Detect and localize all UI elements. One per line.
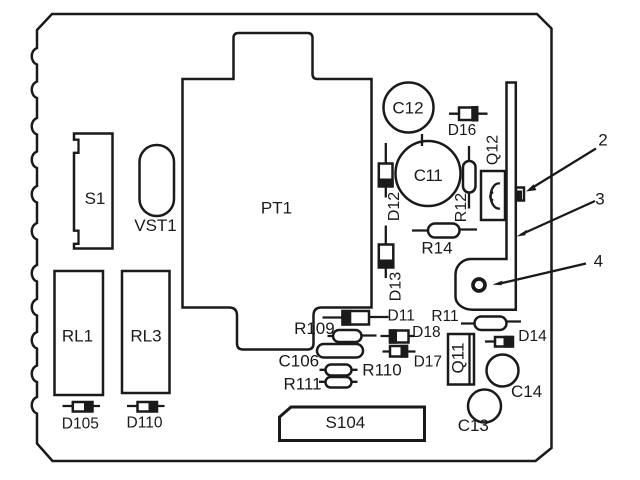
svg-text:D13: D13 xyxy=(388,272,405,301)
resistor R14 xyxy=(412,224,477,258)
svg-text:2: 2 xyxy=(598,131,607,150)
svg-text:Q12: Q12 xyxy=(485,135,502,165)
svg-text:C13: C13 xyxy=(458,416,489,435)
switch S104 xyxy=(280,407,425,441)
resistor R11 xyxy=(431,308,521,330)
svg-text:C14: C14 xyxy=(511,382,542,401)
capacitor C13 xyxy=(458,390,501,436)
capacitor C11 xyxy=(396,134,461,206)
svg-text:3: 3 xyxy=(595,190,604,209)
svg-text:RL3: RL3 xyxy=(130,327,161,346)
svg-text:Q11: Q11 xyxy=(448,343,467,374)
diode D16 xyxy=(448,106,488,139)
svg-text:4: 4 xyxy=(594,252,603,271)
svg-text:R11: R11 xyxy=(431,308,458,325)
svg-text:D17: D17 xyxy=(414,354,442,371)
svg-text:R12: R12 xyxy=(453,193,470,222)
capacitor C14 xyxy=(487,355,543,402)
relay RL1 xyxy=(55,271,104,395)
diode D12 xyxy=(378,143,403,221)
svg-text:R111: R111 xyxy=(283,375,321,394)
callout 4 xyxy=(493,252,604,286)
diode D11 xyxy=(323,308,415,326)
svg-text:S1: S1 xyxy=(85,189,106,208)
svg-text:D18: D18 xyxy=(412,324,440,341)
diode D105 xyxy=(62,401,100,432)
heatsink strip (pointer 3 target) xyxy=(455,83,515,310)
diode D110 xyxy=(127,401,165,431)
svg-text:S104: S104 xyxy=(326,413,366,432)
relay RL3 xyxy=(122,271,170,393)
transistor Q12 xyxy=(481,135,505,220)
callout 2 xyxy=(526,131,608,192)
resistor R110 xyxy=(320,361,402,380)
solder tab (pointer 2 target) xyxy=(516,188,524,201)
svg-text:D12: D12 xyxy=(386,192,403,221)
svg-text:RL1: RL1 xyxy=(62,327,93,346)
svg-text:VST1: VST1 xyxy=(134,216,177,235)
diode D17 xyxy=(383,345,443,371)
diode D13 xyxy=(378,226,405,302)
svg-text:PT1: PT1 xyxy=(261,199,292,218)
diode D18 xyxy=(381,324,441,344)
svg-text:D11: D11 xyxy=(388,308,415,325)
svg-text:R110: R110 xyxy=(362,361,401,380)
switch S1 xyxy=(72,134,113,249)
callout 3 xyxy=(517,190,605,237)
varistor VST1 xyxy=(134,145,177,235)
resistor R12 xyxy=(453,146,475,222)
transformer PT1 xyxy=(183,33,372,350)
board outline xyxy=(32,14,552,461)
resistor R109 xyxy=(294,319,376,342)
svg-text:D105: D105 xyxy=(62,416,99,433)
capacitor C106 xyxy=(278,344,363,371)
capacitor C12 xyxy=(384,83,434,133)
svg-text:D110: D110 xyxy=(127,415,163,432)
resistor R111 xyxy=(283,375,357,394)
mounting hole (pointer 4 target) xyxy=(473,279,485,291)
svg-text:D14: D14 xyxy=(518,328,547,345)
svg-text:R14: R14 xyxy=(421,239,452,258)
svg-text:C11: C11 xyxy=(414,166,442,185)
svg-text:C12: C12 xyxy=(392,99,423,118)
svg-text:D16: D16 xyxy=(448,122,476,139)
transistor Q11 xyxy=(448,334,474,385)
diode D14 xyxy=(485,328,547,348)
svg-text:C106: C106 xyxy=(278,352,319,371)
